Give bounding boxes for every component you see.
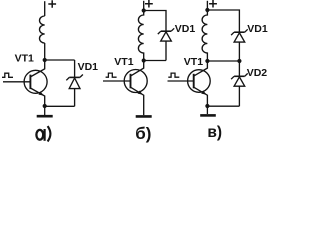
diode VD1 (a) — [66, 60, 83, 106]
inductor L (b) — [138, 11, 143, 61]
inductor L (a) — [39, 16, 44, 43]
wire supply to inductor (a) — [44, 1, 46, 16]
svg-text:VD1: VD1 — [175, 23, 196, 35]
node collector junction (v) — [205, 59, 209, 63]
ground (b) — [136, 115, 152, 118]
svg-text:VT1: VT1 — [184, 56, 203, 68]
wire top node to diode VD1 (v) — [207, 10, 239, 32]
caption a) — [36, 126, 50, 141]
pulse input symbol (v) — [168, 73, 179, 77]
svg-text:VD1: VD1 — [78, 61, 99, 73]
power + (b) — [145, 0, 153, 8]
node emitter junction (a) — [43, 104, 47, 108]
pulse input symbol (a) — [2, 73, 13, 77]
wire collector node to diode node (v) — [207, 60, 239, 62]
svg-text:VD1: VD1 — [247, 23, 268, 35]
node top junction (b) — [142, 8, 146, 12]
svg-text:VT1: VT1 — [114, 56, 133, 68]
wire top node to diode (b) — [144, 11, 166, 32]
transistor VT1 (v) — [168, 61, 211, 106]
inductor L (v) — [202, 10, 207, 61]
diode VD1 (b) — [158, 28, 174, 60]
transistor VT1 (a) — [3, 60, 47, 106]
power + (v) — [209, 0, 217, 8]
transistor VT1 (b) — [103, 61, 147, 116]
wire supply to top node (b) — [143, 1, 145, 11]
wire diode to emitter node (a) — [45, 105, 75, 107]
ground (v) — [200, 106, 216, 115]
wire collector node to diode (a) — [45, 59, 75, 61]
diode VD2 (v) — [231, 61, 248, 106]
svg-text:в): в) — [207, 124, 222, 141]
diode VD1 (v) — [231, 29, 248, 61]
node diode junction (v) — [237, 59, 241, 63]
node emitter junction (v) — [205, 104, 209, 108]
node collector junction (a) — [43, 58, 47, 62]
wire supply to top node (v) — [206, 1, 208, 10]
svg-text:VD2: VD2 — [247, 67, 268, 79]
wire diode VD2 to emitter node (v) — [207, 105, 239, 107]
wire diode to collector node (b) — [144, 60, 166, 62]
ground (a) — [37, 106, 53, 116]
pulse input symbol (b) — [106, 73, 117, 77]
node top junction (v) — [205, 8, 209, 12]
wire inductor to collector node (a) — [44, 43, 46, 60]
power + (a) — [48, 0, 56, 8]
node collector junction (b) — [142, 58, 146, 62]
svg-text:VT1: VT1 — [15, 52, 34, 64]
svg-text:б): б) — [135, 124, 151, 143]
